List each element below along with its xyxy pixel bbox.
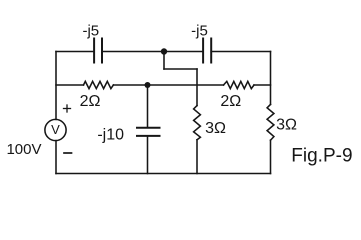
wire left rail lower [55,141,57,174]
svg-text:V: V [51,122,60,137]
minus sign of source [64,152,72,154]
wire right rail lower [270,140,272,173]
wire top rail right segment [211,51,270,53]
resistor R3 3ohm left zigzag [194,106,201,140]
wire middle rail center segment [113,84,223,86]
wire bottom rail [56,173,271,175]
svg-text:2Ω: 2Ω [80,93,101,110]
wire middle rail right segment [254,84,271,86]
node A junction dot on top rail [161,48,167,54]
wire C3 top lead [147,85,149,127]
wire middle rail left segment [56,84,84,86]
svg-text:Fig.P-9: Fig.P-9 [291,145,352,166]
svg-text:3Ω: 3Ω [205,120,226,137]
svg-text:-j5: -j5 [191,23,208,40]
resistor R4 3ohm right zigzag [267,104,274,140]
wire jog from node A down [163,52,165,70]
plus sign of source [64,105,71,112]
svg-text:3Ω: 3Ω [276,117,297,134]
svg-text:2Ω: 2Ω [220,93,241,110]
resistor R2 2ohm right zigzag [224,81,255,88]
svg-text:100V: 100V [6,141,41,158]
resistor R1 2ohm left zigzag [84,81,114,88]
wire jog horizontal [164,68,197,70]
wire C3 bottom lead [147,137,149,174]
wire left rail upper [55,52,57,120]
svg-text:-j10: -j10 [97,126,124,143]
capacitor C2 -j5 plates [203,39,211,63]
wire R3 bottom lead [196,140,198,174]
wire right rail upper [270,52,272,105]
wire jog down crossing middle rail [196,69,198,106]
wire top rail left segment [56,51,94,53]
capacitor C1 -j5 plates [94,39,102,63]
voltage source V1 circle [45,119,66,140]
node B junction dot on middle rail [145,82,151,88]
wire top rail middle segment [102,51,203,53]
capacitor C3 -j10 plates [137,128,160,136]
svg-text:-j5: -j5 [82,23,99,40]
